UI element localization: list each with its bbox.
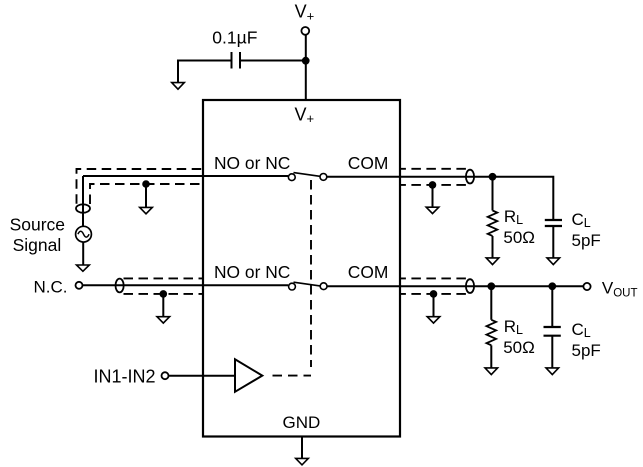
- shield dashed lower (row1 right): [400, 184, 466, 186]
- shield dashed upper (row1 right): [400, 168, 466, 170]
- shield dashed lower (row2 left): [124, 293, 204, 295]
- junction dot shield row2 right: [430, 290, 438, 298]
- wire source to row1: [82, 176, 84, 226]
- switch S1 contact left: [288, 174, 295, 181]
- svg-text:IN1-IN2: IN1-IN2: [93, 367, 155, 387]
- capacitor CL row1: [545, 220, 562, 259]
- shield dashed outer (source): [77, 169, 204, 204]
- junction dot row 1: [489, 173, 497, 181]
- label Source Signal: [10, 215, 65, 256]
- svg-text:5pF: 5pF: [572, 231, 601, 250]
- ground (CL row2): [546, 368, 559, 375]
- wire source to ground: [82, 242, 84, 266]
- AC source (Source Signal): [76, 226, 92, 242]
- buffer driver U2: [235, 359, 262, 392]
- shield dashed upper (row2 left): [124, 277, 204, 279]
- wire row 1 output: [327, 177, 554, 220]
- shield ellipse (N.C.): [116, 279, 124, 293]
- wire row 2 output: [327, 285, 584, 287]
- junction dot row2 b: [548, 282, 556, 290]
- ground (bypass cap): [172, 83, 185, 90]
- svg-text:COM: COM: [348, 153, 389, 173]
- wire V+ stem: [305, 35, 307, 100]
- wire GND stem: [301, 437, 303, 461]
- switch S1 contact right: [320, 174, 327, 181]
- switch S2 contact right: [320, 283, 327, 290]
- svg-text:GND: GND: [283, 413, 321, 432]
- svg-text:NO or NC: NO or NC: [214, 153, 290, 173]
- wire bypass cap to V+: [241, 60, 306, 62]
- IC box U1: [203, 100, 400, 437]
- wire row 1 input: [83, 175, 288, 177]
- VOUT terminal: [583, 283, 590, 290]
- ground (shield row1 left): [140, 207, 153, 213]
- shield ellipse (row2 right): [466, 279, 474, 293]
- switch S2 blade: [294, 282, 321, 286]
- switch S2 contact left: [289, 283, 296, 290]
- svg-text:Signal: Signal: [13, 235, 62, 255]
- ground (CL row1): [547, 258, 560, 265]
- shield dashed upper (row2 right): [400, 277, 466, 279]
- resistor RL row2: [486, 286, 496, 369]
- wire shield ground row2 left: [162, 294, 164, 318]
- V+ terminal: [301, 27, 309, 35]
- shield dashed lower (row2 right): [400, 293, 466, 295]
- svg-text:Source: Source: [10, 215, 65, 235]
- resistor RL row1: [488, 177, 498, 259]
- svg-text:50Ω: 50Ω: [503, 228, 535, 247]
- ground (GND pin): [296, 458, 309, 465]
- wire IN1-IN2 to buffer: [169, 375, 236, 377]
- shield dashed inner (source): [90, 184, 203, 204]
- svg-text:5pF: 5pF: [572, 341, 601, 360]
- junction dot shield row1 left: [142, 180, 150, 188]
- ground (RL row1): [486, 258, 499, 265]
- ground (shield row1 right): [426, 207, 439, 213]
- wire shield ground row1 right: [432, 185, 434, 209]
- IN1-IN2 terminal: [162, 372, 169, 379]
- ground (source): [77, 265, 90, 271]
- svg-text:50Ω: 50Ω: [503, 338, 535, 357]
- svg-text:NO or NC: NO or NC: [214, 262, 290, 282]
- N.C. terminal: [76, 282, 83, 289]
- wire shield ground row1 left: [145, 184, 147, 209]
- wire row 2 input: [83, 284, 289, 286]
- ground (shield row2 right): [427, 317, 440, 323]
- ground (shield row2 left): [157, 317, 170, 323]
- shield ellipse (row1 right): [466, 170, 474, 184]
- wire cap to ground: [178, 61, 231, 85]
- junction dot row2 a: [487, 282, 495, 290]
- switch S1 blade: [294, 173, 321, 177]
- junction dot V+: [302, 57, 310, 65]
- svg-text:0.1µF: 0.1µF: [212, 28, 257, 48]
- capacitor 0.1uF: [232, 52, 241, 69]
- junction dot shield row1 right: [429, 181, 437, 189]
- svg-text:N.C.: N.C.: [34, 278, 68, 297]
- shield ellipse (source): [76, 204, 90, 212]
- capacitor CL row2: [544, 286, 561, 369]
- svg-text:COM: COM: [348, 262, 389, 282]
- wire shield ground row2 right: [433, 294, 435, 318]
- junction dot shield row2 left: [160, 290, 168, 298]
- dashed control line: [273, 375, 312, 377]
- ground (RL row2): [485, 368, 498, 375]
